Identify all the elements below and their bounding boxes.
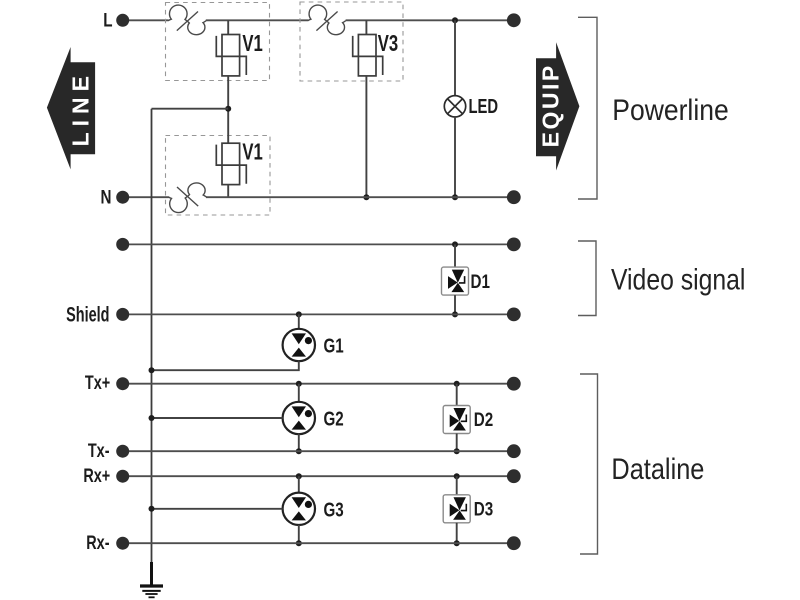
- wire Rx+ row: [123, 475, 514, 477]
- gas tube G2: [283, 402, 344, 434]
- svg-text:LED: LED: [469, 95, 499, 118]
- wire G2 bottom stub: [298, 434, 300, 451]
- bracket Video signal: [578, 241, 596, 316]
- terminal video left: [116, 238, 129, 251]
- terminal Tx-: [88, 440, 129, 461]
- diode D2: [443, 406, 493, 434]
- dashed box around lower V1 / fuse: [166, 136, 271, 216]
- svg-text:L: L: [103, 9, 112, 31]
- svg-text:D1: D1: [471, 270, 491, 292]
- terminal N: [101, 186, 130, 208]
- dashed box around F1/V1: [166, 3, 270, 81]
- EQUIP arrow: [536, 42, 579, 170]
- terminal right of L row: [507, 13, 521, 27]
- svg-text:N: N: [101, 186, 112, 208]
- gas tube G1: [283, 329, 344, 361]
- svg-text:Video signal: Video signal: [611, 262, 745, 296]
- wire D2 upper stub: [456, 384, 458, 406]
- varistor V1 lower: [216, 140, 263, 184]
- LED indicator: [444, 95, 498, 118]
- node LED/N: [452, 194, 458, 200]
- varistor V3: [353, 31, 399, 75]
- node D3 top: [454, 473, 460, 479]
- wire G2 upper stub: [298, 384, 300, 402]
- terminal Rx+: [83, 465, 129, 486]
- wire branch to ground line: [152, 108, 229, 110]
- node LED top: [452, 17, 458, 23]
- svg-text:V3: V3: [378, 31, 398, 56]
- svg-text:Tx+: Tx+: [85, 372, 110, 393]
- svg-text:Tx-: Tx-: [88, 440, 110, 461]
- wire shield row: [123, 313, 514, 315]
- svg-text:V1: V1: [242, 31, 262, 56]
- wire G3 left to ground line: [152, 508, 283, 510]
- svg-text:G3: G3: [324, 498, 344, 521]
- wire G2 left to ground line: [152, 417, 283, 419]
- node G3 bottom: [296, 540, 302, 546]
- svg-text:D3: D3: [474, 498, 494, 520]
- node G2/ground: [149, 415, 155, 421]
- wire D1 lower stub: [454, 295, 456, 314]
- svg-text:V1: V1: [242, 140, 262, 165]
- node D2 top: [454, 381, 460, 387]
- fuse F1 on L row: [168, 5, 206, 35]
- wire Rx- row: [123, 542, 514, 544]
- node G2 top: [296, 381, 302, 387]
- node G2 bottom: [296, 448, 302, 454]
- terminal Rx+ right: [507, 469, 521, 483]
- wire G3 upper stub: [298, 476, 300, 493]
- svg-text:Dataline: Dataline: [611, 452, 704, 485]
- ground symbol: [140, 562, 163, 597]
- terminal Rx-: [86, 532, 129, 553]
- fuse F3 on L row (second stage): [308, 5, 346, 35]
- wire N row: [123, 196, 514, 198]
- node D3 bottom: [454, 540, 460, 546]
- diode D3: [443, 495, 493, 523]
- LINE arrow: [47, 47, 95, 169]
- wire LED upper: [454, 20, 456, 95]
- wire V1 to junction: [227, 76, 229, 143]
- fuse F2 on N row: [169, 183, 207, 213]
- wire L top row: [123, 19, 514, 21]
- wire V3 stub: [365, 20, 367, 34]
- diode D1: [442, 267, 491, 295]
- terminal L: [103, 9, 129, 31]
- wire G1 bottom to ground line: [152, 361, 299, 370]
- terminal right of N row: [507, 190, 521, 204]
- wire D3 lower stub: [456, 523, 458, 543]
- terminal Tx- right: [507, 444, 521, 458]
- node D1 bottom: [452, 311, 458, 317]
- terminal video right: [507, 238, 521, 252]
- svg-text:LINE: LINE: [68, 70, 94, 146]
- wire V1 lower to N: [227, 185, 229, 198]
- node D2 bottom: [454, 448, 460, 454]
- bracket Dataline: [580, 374, 598, 554]
- svg-text:G1: G1: [324, 334, 344, 357]
- node V3/N: [363, 194, 369, 200]
- gas tube G3: [283, 493, 344, 525]
- wire V1 upper stub: [227, 20, 229, 34]
- svg-text:G2: G2: [324, 407, 344, 430]
- svg-text:Shield: Shield: [66, 303, 109, 326]
- terminal Tx+ right: [507, 377, 521, 391]
- svg-text:Rx-: Rx-: [86, 532, 109, 553]
- wire V3 to N: [365, 76, 367, 197]
- wire Tx+ row: [123, 383, 514, 385]
- wire D3 upper stub: [456, 476, 458, 495]
- svg-text:EQUIP: EQUIP: [538, 63, 564, 147]
- varistor V1 upper: [216, 31, 263, 75]
- wire video row: [123, 243, 514, 245]
- svg-text:Rx+: Rx+: [83, 465, 110, 486]
- wire LED lower: [454, 117, 456, 197]
- node D1 top: [452, 241, 458, 247]
- svg-text:D2: D2: [474, 408, 494, 430]
- wire D2 lower stub: [456, 434, 458, 452]
- node G1 top: [296, 311, 302, 317]
- terminal Tx+: [85, 372, 129, 393]
- terminal Rx- right: [507, 536, 521, 550]
- node G3 top: [296, 473, 302, 479]
- terminal Shield: [66, 303, 129, 326]
- wire G3 bottom stub: [298, 525, 300, 543]
- terminal shield right: [507, 308, 521, 322]
- wire D1 upper stub: [454, 244, 456, 267]
- wire G1 upper stub: [298, 314, 300, 329]
- svg-text:Powerline: Powerline: [612, 92, 728, 126]
- node G3/ground: [149, 506, 155, 512]
- node junction V1/ground branch: [225, 106, 231, 112]
- bracket Powerline: [578, 17, 597, 199]
- dashed box around F?/V3: [300, 2, 403, 81]
- node G1/ground: [149, 367, 155, 373]
- ground line vertical: [151, 109, 153, 563]
- wire Tx- row: [123, 450, 514, 452]
